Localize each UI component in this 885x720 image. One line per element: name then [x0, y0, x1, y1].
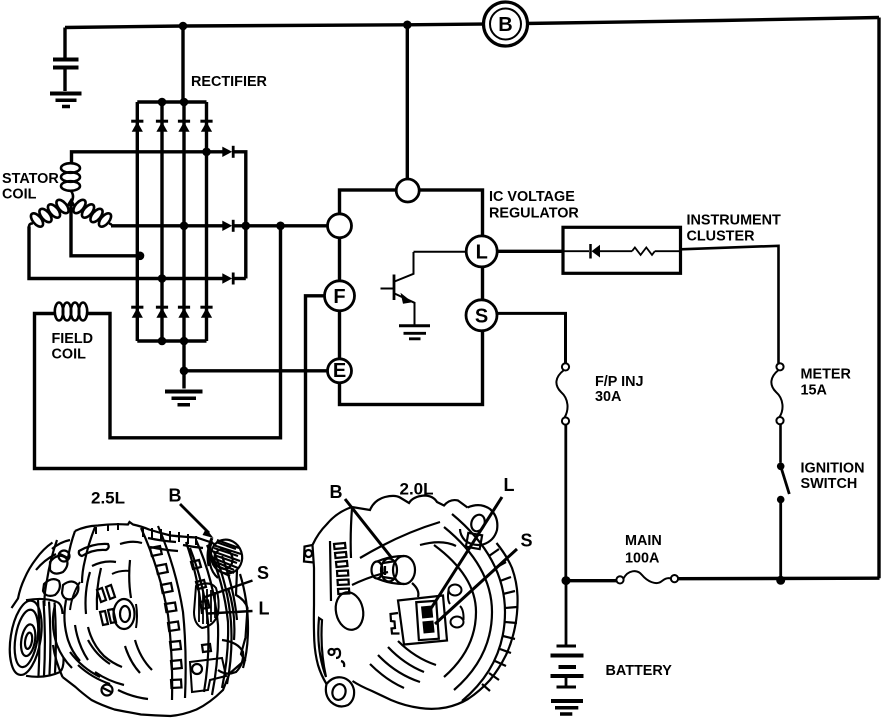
alternator 2.5L top ribs	[148, 538, 203, 551]
alternator 2.0L rib column	[334, 543, 349, 594]
svg-text:L: L	[504, 475, 515, 495]
alternator 2.5L rear hatch	[186, 542, 209, 692]
svg-text:STATOR: STATOR	[2, 171, 59, 187]
rectifier top bus	[137, 100, 206, 103]
instrument cluster box	[563, 227, 681, 273]
alternator 2.5L foot	[190, 658, 226, 692]
svg-text:FIELD: FIELD	[52, 331, 94, 347]
ground (transistor)	[399, 326, 430, 339]
diode D10 (rectifier bottom col2)	[156, 307, 168, 318]
node rail-rectifier	[179, 22, 188, 31]
alternator 2.5L rear arcs	[196, 540, 228, 695]
alternator 2.5L top slot	[79, 544, 109, 556]
svg-text:RECTIFIER: RECTIFIER	[191, 74, 268, 90]
leader L	[430, 497, 502, 610]
terminal E	[328, 359, 352, 383]
alternator 2.0L front oval	[332, 590, 366, 633]
alternator 2.0L left sliver	[318, 618, 326, 677]
node phase2-bus	[242, 222, 251, 231]
svg-text:INSTRUMENT: INSTRUMENT	[687, 213, 782, 229]
terminal B	[484, 2, 528, 46]
alternator 2.5L front casting arcs	[75, 562, 116, 665]
wire fuse to switch	[779, 424, 782, 462]
node phase2-col3	[180, 222, 189, 231]
svg-text:SWITCH: SWITCH	[801, 476, 858, 492]
ground (battery)	[551, 701, 583, 714]
diode D1 (rectifier top col1)	[131, 121, 143, 132]
svg-text:METER: METER	[801, 367, 852, 383]
svg-text:COIL: COIL	[2, 187, 37, 203]
node phase3-col2	[158, 274, 167, 283]
alternator 2.5L bolt top	[59, 551, 70, 562]
svg-text:B: B	[169, 486, 182, 506]
alternator 2.5L rear vents	[191, 560, 211, 652]
alternator 2.0L top-right lug	[460, 505, 497, 545]
node ground-E	[180, 367, 189, 376]
node bus top 3	[180, 98, 189, 107]
diode D8 (cluster)	[563, 244, 632, 259]
fuse MAIN 100A	[616, 571, 678, 583]
fuse F/P INJ 30A	[556, 363, 569, 424]
ground (capacitor)	[50, 92, 82, 96]
svg-text:S: S	[257, 563, 269, 583]
alternator 2.0L shroud slots	[482, 549, 517, 691]
svg-text:L: L	[259, 599, 270, 619]
wire cluster to meter fuse	[681, 246, 779, 363]
alternator 2.0L B stud	[393, 556, 415, 584]
node star point	[66, 198, 76, 206]
terminal circle P (left, unlabeled)	[328, 214, 352, 238]
wire field coil loop	[35, 296, 325, 469]
alternator 2.5L B terminal	[207, 536, 247, 578]
ignition switch SW1	[777, 463, 789, 581]
leader S	[435, 549, 517, 624]
wire bottom rail	[566, 578, 880, 581]
diode D2 (rectifier top col2)	[156, 121, 168, 132]
diode D12 (rectifier bottom col4)	[200, 307, 212, 318]
wire L to instrument cluster	[497, 250, 563, 253]
alternator 2.0L left small lug	[304, 545, 314, 563]
capacitor C1 lead	[63, 28, 66, 92]
alternator 2.0L connector	[398, 596, 447, 645]
terminal circle (top, unlabeled)	[396, 179, 419, 202]
svg-text:F/P INJ: F/P INJ	[595, 374, 644, 390]
alternator 2.0L inner curves	[352, 522, 440, 585]
svg-text:BATTERY: BATTERY	[606, 663, 673, 679]
terminal F	[325, 281, 355, 311]
wire right rail	[877, 18, 880, 579]
battery BAT1	[551, 581, 584, 687]
rectifier column 3	[182, 102, 185, 341]
svg-text:30A: 30A	[595, 389, 622, 405]
wire rectifier ground stem	[182, 341, 185, 389]
alternator 2.5L bolt bottom	[102, 685, 113, 696]
alternator 2.5L center boss	[114, 599, 135, 629]
rectifier bottom bus	[137, 339, 206, 342]
svg-text:15A: 15A	[801, 383, 828, 399]
alternator 2.5L pulley rings	[5, 598, 46, 677]
rectifier column 1	[136, 102, 139, 341]
rectifier column 4	[205, 102, 208, 341]
svg-text:E: E	[333, 360, 346, 382]
svg-text:F: F	[333, 286, 345, 308]
wire top rail	[65, 18, 879, 28]
diode D6 (phase2 right)	[222, 220, 233, 232]
alternator 2.0L bottom-left lug	[326, 677, 354, 706]
diode D7 (phase3 right)	[222, 273, 233, 285]
diode D5 (phase1 right)	[222, 146, 233, 158]
svg-text:IGNITION: IGNITION	[801, 461, 865, 477]
alternator 2.5L front housing curves	[44, 540, 62, 677]
wire rectifier drop	[181, 26, 184, 102]
wire phase 3	[29, 227, 223, 279]
wire fuse to battery junction	[564, 425, 567, 581]
alternator 2.5L radial slots	[97, 585, 116, 625]
leader L	[208, 611, 253, 614]
wire neutral	[71, 203, 140, 256]
node rail-regulator	[403, 21, 412, 30]
node phase1-col4	[202, 148, 211, 157]
field coil winding	[55, 303, 87, 321]
stator coil vertical winding	[29, 163, 114, 229]
resistor R1 (cluster)	[632, 248, 655, 255]
svg-text:REGULATOR: REGULATOR	[489, 206, 579, 222]
alternator 2.5L body outline	[12, 522, 248, 716]
leader B	[345, 499, 391, 557]
alternator 2.0L body outline	[313, 496, 518, 709]
diode D11 (rectifier bottom col3)	[178, 307, 190, 318]
svg-text:IC VOLTAGE: IC VOLTAGE	[489, 189, 575, 205]
leader S	[205, 581, 253, 598]
leader B	[180, 504, 209, 533]
svg-text:B: B	[498, 14, 512, 36]
ground (rectifier)	[165, 392, 203, 405]
alternator 2.5L B terminal hatch	[212, 540, 241, 576]
alternator 2.5L band vents	[150, 546, 182, 688]
fuse METER 15A	[771, 363, 783, 424]
alternator 2.5L pulley grooves	[26, 599, 60, 677]
rectifier upper diodes	[131, 121, 212, 318]
node battery junction	[562, 576, 571, 585]
alternator 2.5L stator band	[141, 526, 186, 700]
alternator 2.0L shroud arcs	[452, 514, 505, 701]
svg-text:B: B	[330, 482, 343, 502]
alternator 2.5L vent blobs	[50, 556, 67, 574]
node bus bottom 3	[180, 337, 189, 346]
node bus bottom 2	[158, 337, 167, 346]
svg-text:MAIN: MAIN	[625, 533, 662, 549]
alternator 2.5L extra front detail	[53, 600, 80, 668]
node bus top 2	[158, 98, 167, 107]
rectifier column 2	[160, 102, 163, 341]
wire phase 2	[111, 224, 328, 227]
alternator 2.0L small details	[334, 649, 344, 667]
terminal L	[466, 236, 497, 267]
terminal S	[466, 300, 497, 331]
node switch junction	[776, 576, 785, 585]
svg-text:S: S	[521, 531, 533, 551]
IC voltage regulator box U1	[340, 190, 483, 405]
ALTERNATOR 2.0L pictorial	[304, 475, 533, 709]
wire phase 1	[72, 152, 224, 163]
ALTERNATOR 2.5L pictorial	[5, 486, 269, 717]
node neutral-col1	[136, 252, 145, 261]
stator coil left winding	[54, 198, 71, 216]
wire regulator B drop	[406, 25, 409, 179]
svg-text:S: S	[475, 306, 488, 328]
stator coil right winding	[71, 198, 88, 216]
svg-text:L: L	[476, 242, 488, 264]
wire S to F/P fuse	[497, 313, 566, 363]
svg-text:2.5L: 2.5L	[91, 489, 125, 508]
svg-text:COIL: COIL	[52, 347, 87, 363]
wire E to rectifier ground	[184, 369, 328, 372]
diode D4 (rectifier top col4)	[200, 121, 212, 132]
alternator 2.5L lug	[218, 640, 243, 674]
diode D3 (rectifier top col3)	[178, 121, 190, 132]
alternator 2.0L sticker digits	[448, 585, 464, 628]
svg-text:100A: 100A	[625, 551, 660, 567]
diode D9 (rectifier bottom col1)	[131, 307, 143, 318]
node phase2-field	[276, 222, 285, 231]
transistor Q1	[381, 252, 467, 326]
capacitor C1	[53, 60, 79, 68]
svg-text:CLUSTER: CLUSTER	[687, 229, 756, 245]
alternator 2.5L connector detail	[194, 583, 219, 628]
